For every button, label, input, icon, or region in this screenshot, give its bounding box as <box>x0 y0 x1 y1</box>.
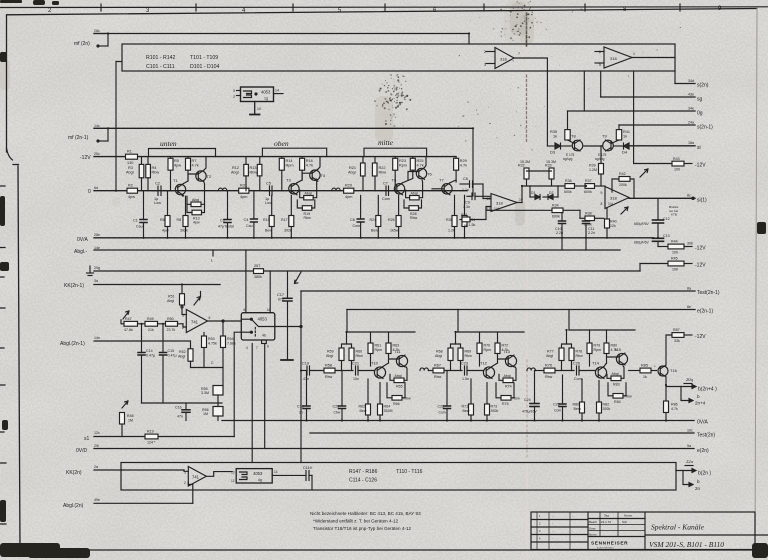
svg-text:Cbw: Cbw <box>334 411 341 415</box>
resistor R42 feedback <box>612 172 634 198</box>
svg-text:R36: R36 <box>565 179 572 183</box>
svg-text:6: 6 <box>244 308 246 312</box>
svg-text:R41: R41 <box>623 130 630 134</box>
svg-text:T7: T7 <box>439 178 444 183</box>
node 0V/D <box>76 444 99 454</box>
wire T6 collector up <box>425 157 427 168</box>
svg-text:15.3M: 15.3M <box>546 160 556 164</box>
svg-text:Bew: Bew <box>463 409 470 413</box>
svg-text:R16: R16 <box>306 159 313 163</box>
svg-text:34d: 34d <box>688 79 694 83</box>
svg-text:R51: R51 <box>168 295 175 299</box>
svg-text:R39: R39 <box>589 164 596 168</box>
resistor R31b <box>460 208 486 228</box>
svg-text:R23: R23 <box>399 159 406 163</box>
capacitor C11 <box>583 221 596 251</box>
svg-text:Rpm: Rpm <box>375 348 383 352</box>
svg-text:Abgl: Abgl <box>546 354 553 358</box>
node s1 <box>84 431 100 442</box>
resistor R2 <box>127 184 138 200</box>
wire diode row stubs <box>530 186 558 197</box>
svg-text:0: 0 <box>88 189 91 195</box>
svg-text:b: b <box>697 394 700 399</box>
svg-text:29i: 29i <box>94 444 99 448</box>
capacitor C9 <box>463 193 491 209</box>
wire drop x601 <box>600 71 602 97</box>
svg-text:3: 3 <box>182 314 184 318</box>
resistor R43 and -12V net <box>634 157 707 172</box>
resistor R26 <box>388 195 401 238</box>
svg-text:R32: R32 <box>518 164 525 168</box>
resistor R55 <box>201 386 223 407</box>
svg-text:T2: T2 <box>207 174 212 179</box>
svg-text:R15: R15 <box>263 218 270 222</box>
svg-text:4.7k: 4.7k <box>192 164 199 168</box>
svg-text:R42: R42 <box>619 172 626 176</box>
svg-text:R78: R78 <box>576 350 583 354</box>
svg-text:mf (2n-1): mf (2n-1) <box>68 135 89 141</box>
net b(2n+4) <box>666 377 717 406</box>
svg-text:R33: R33 <box>545 164 552 168</box>
switch arrow A2 <box>621 207 628 214</box>
transistor T15 <box>614 347 628 365</box>
svg-text:Abgl: Abgl <box>192 198 199 202</box>
svg-text:Bearb: Bearb <box>589 520 597 524</box>
svg-text:Test(2n): Test(2n) <box>697 433 715 439</box>
svg-text:T9: T9 <box>602 134 607 139</box>
svg-text:D3: D3 <box>550 150 556 155</box>
svg-text:Abgl: Abgl <box>305 191 312 195</box>
svg-text:4.7k: 4.7k <box>611 348 618 352</box>
svg-text:T16: T16 <box>670 368 678 373</box>
net sg <box>601 93 703 103</box>
svg-text:Com: Com <box>554 409 561 413</box>
svg-text:392k: 392k <box>180 229 188 233</box>
svg-text:Abgl.-: Abgl.- <box>74 249 87 255</box>
wire 0V/D e(2n) line <box>94 448 694 450</box>
svg-text:Rbw: Rbw <box>410 216 418 220</box>
svg-text:34e: 34e <box>688 107 694 111</box>
node 0V/A rail label <box>77 233 100 243</box>
svg-text:T101 - T109: T101 - T109 <box>190 55 218 61</box>
svg-text:0V/D: 0V/D <box>76 448 88 454</box>
node KK(2n-1) <box>64 279 98 289</box>
svg-text:R60: R60 <box>356 350 363 354</box>
capacitor C1 <box>133 191 147 238</box>
transistor T4 <box>310 169 326 181</box>
svg-text:7: 7 <box>518 52 520 56</box>
wire KK(2n-1) bus <box>94 284 220 286</box>
svg-text:Bew: Bew <box>360 409 367 413</box>
wire Abgl rail <box>94 249 620 251</box>
svg-text:-: - <box>552 523 553 526</box>
svg-text:1/4: 1/4 <box>608 202 613 206</box>
net e(2n) label <box>687 444 709 454</box>
resistor R53 <box>202 333 217 368</box>
svg-text:KTB: KTB <box>671 213 677 217</box>
node Abgl.(2n-1) <box>60 336 100 347</box>
transistor T3 <box>286 178 299 195</box>
svg-text:318: 318 <box>610 56 617 61</box>
ground symbol left <box>87 266 101 276</box>
svg-text:318: 318 <box>496 201 503 206</box>
scan speckle cluster <box>374 8 681 150</box>
resistor R17 <box>281 195 294 238</box>
svg-text:R79: R79 <box>594 344 601 348</box>
node 0 rail label <box>88 186 98 195</box>
svg-text:R37: R37 <box>585 179 592 183</box>
op-amp U102 <box>595 47 675 68</box>
svg-text:oben: oben <box>274 139 289 148</box>
svg-text:392k: 392k <box>491 409 499 413</box>
svg-text:1: 1 <box>633 52 635 56</box>
svg-text:R69: R69 <box>465 350 472 354</box>
svg-text:R67: R67 <box>434 364 441 368</box>
top ruler line <box>0 6 768 9</box>
svg-text:392k: 392k <box>603 407 611 411</box>
wire C8 to U3 <box>483 184 491 199</box>
resistor R9 Abgl <box>187 182 205 207</box>
svg-text:2: 2 <box>184 481 186 485</box>
resistor R58 <box>324 364 353 379</box>
wire mf(2n) drop <box>468 34 470 45</box>
resistor R67 <box>428 364 462 379</box>
resistor R28 <box>404 200 422 220</box>
svg-text:0V/A: 0V/A <box>697 420 709 426</box>
resistor R32 <box>518 160 530 186</box>
diode D2 <box>543 191 558 200</box>
inductor L3 <box>420 368 428 371</box>
inductor L4 <box>527 368 535 371</box>
net e(2n-1) <box>347 305 713 315</box>
svg-text:100: 100 <box>672 268 678 272</box>
svg-text:Spektral - Kanäle: Spektral - Kanäle <box>651 523 705 532</box>
transistor T13 <box>503 349 517 367</box>
svg-text:R43: R43 <box>673 157 680 161</box>
svg-text:600k: 600k <box>552 215 560 219</box>
svg-text:R72: R72 <box>502 344 509 348</box>
wire T12 collector link <box>492 356 508 367</box>
svg-text:4pw: 4pw <box>128 195 135 199</box>
svg-text:R65: R65 <box>396 385 403 389</box>
resistor R37 <box>584 179 605 194</box>
resistor R59 R60 trimmer pair <box>326 332 363 371</box>
svg-text:C5: C5 <box>266 182 271 186</box>
wire unten bracket <box>149 149 216 157</box>
svg-text:Abgl: Abgl <box>167 299 174 303</box>
svg-text:Com: Com <box>353 224 361 228</box>
svg-text:Rbw: Rbw <box>576 354 584 358</box>
svg-text:30b: 30b <box>687 242 693 246</box>
svg-text:C26: C26 <box>573 362 580 366</box>
capacitor C8 <box>460 177 483 192</box>
resistor R77 R78 trimmer pair <box>546 330 583 371</box>
resistor R71 <box>462 379 474 421</box>
capacitor C21 <box>352 362 374 382</box>
svg-text:mitte: mitte <box>378 138 394 147</box>
svg-text:392k: 392k <box>284 229 292 233</box>
net si <box>629 141 701 151</box>
svg-text:2n: 2n <box>695 486 701 491</box>
svg-text:1k: 1k <box>553 135 557 139</box>
svg-text:Bem: Bem <box>574 407 581 411</box>
capacitor C12 <box>634 198 670 238</box>
resistor R8 <box>177 196 189 238</box>
svg-text:4pm: 4pm <box>345 195 352 199</box>
svg-text:-12V: -12V <box>695 263 706 269</box>
resistor R73 <box>485 383 499 421</box>
svg-text:33k: 33k <box>674 339 680 343</box>
svg-text:14: 14 <box>274 470 278 474</box>
svg-text:R80: R80 <box>573 403 580 407</box>
mux U6 4053 <box>241 250 302 350</box>
svg-text:C25: C25 <box>553 403 560 407</box>
svg-text:43e: 43e <box>688 93 694 97</box>
net b(2n) <box>676 459 711 491</box>
svg-text:Rbw: Rbw <box>545 375 553 379</box>
svg-text:22a: 22a <box>686 459 694 464</box>
svg-text:352M: 352M <box>384 409 393 413</box>
op-amp U7 741 <box>122 467 232 491</box>
resistor R51 trimmer <box>167 285 201 315</box>
resistor R18 Abgl <box>300 179 317 200</box>
svg-text:mf (2n): mf (2n) <box>74 41 90 47</box>
svg-text:9: 9 <box>601 191 603 195</box>
transistor T5 <box>392 178 405 195</box>
svg-text:6: 6 <box>209 316 211 320</box>
border frame <box>7 9 758 153</box>
capacitor C23 <box>461 362 483 382</box>
net s(2n) <box>675 79 709 89</box>
resistor R80 <box>604 330 617 354</box>
svg-text:R34: R34 <box>552 204 559 208</box>
svg-text:C22: C22 <box>438 405 445 409</box>
svg-text:R77: R77 <box>547 350 554 354</box>
svg-text:ELECTRONIC: ELECTRONIC <box>597 548 614 550</box>
svg-text:Abgl: Abgl <box>231 171 239 175</box>
resistor R79 <box>587 330 601 366</box>
svg-text:Rpm: Rpm <box>286 164 294 168</box>
svg-text:R45: R45 <box>671 257 678 261</box>
svg-text:28c: 28c <box>94 29 100 33</box>
svg-text:C6: C6 <box>350 218 355 222</box>
svg-text:Rbw: Rbw <box>152 171 160 175</box>
svg-text:600k: 600k <box>584 190 592 194</box>
wire mitte bracket <box>364 148 427 156</box>
svg-text:R14: R14 <box>286 159 293 163</box>
svg-text:VSM 201-S, B101 - B110: VSM 201-S, B101 - B110 <box>649 540 724 549</box>
svg-text:T14: T14 <box>592 361 600 366</box>
svg-text:Name: Name <box>624 514 632 518</box>
svg-text:R31: R31 <box>461 213 468 217</box>
resistor R46 <box>120 401 134 437</box>
ground (reference block) <box>250 102 261 115</box>
resistor R7 <box>186 157 199 171</box>
wire 0V/D riser <box>264 344 266 449</box>
wire U5 output <box>208 320 242 322</box>
svg-text:R80: R80 <box>611 344 618 348</box>
svg-text:T1: T1 <box>173 178 178 183</box>
svg-text:C1: C1 <box>133 219 138 223</box>
svg-text:23.1.76: 23.1.76 <box>601 520 611 524</box>
net Test(2n) <box>310 429 715 439</box>
ruler ticks <box>101 4 680 11</box>
svg-text:R20: R20 <box>345 184 352 188</box>
svg-text:5: 5 <box>599 63 601 67</box>
resistor R27 Abgl <box>406 180 423 200</box>
svg-text:R147 - R186: R147 - R186 <box>349 469 378 475</box>
svg-text:680μF/6V: 680μF/6V <box>634 222 650 226</box>
svg-text:R84: R84 <box>614 400 621 404</box>
svg-text:R35: R35 <box>550 130 557 134</box>
svg-text:R61: R61 <box>375 344 382 348</box>
svg-text:R46: R46 <box>127 414 134 418</box>
svg-text:4.7k: 4.7k <box>417 164 424 168</box>
svg-text:T3: T3 <box>286 178 291 183</box>
resistor R74 Abgl <box>499 367 516 389</box>
svg-text:-: - <box>572 530 573 533</box>
svg-text:Abgl: Abgl <box>326 354 333 358</box>
svg-text:sg/spg: sg/spg <box>595 157 605 161</box>
svg-text:-: - <box>552 538 553 541</box>
svg-text:C17: C17 <box>277 293 284 297</box>
resistor R23 <box>393 157 407 191</box>
wire 0V/A rail <box>94 237 654 239</box>
inductor L2 <box>332 188 340 191</box>
resistor R61 <box>368 332 382 366</box>
wire block bottom <box>142 402 223 404</box>
svg-text:SENNHEISER: SENNHEISER <box>591 541 628 547</box>
svg-text:1n: 1n <box>299 411 303 415</box>
svg-text:Com: Com <box>574 377 582 381</box>
svg-text:R5: R5 <box>174 159 179 163</box>
svg-text:8: 8 <box>601 202 603 206</box>
net si(1) <box>629 194 707 204</box>
svg-text:4.75k: 4.75k <box>208 342 217 346</box>
svg-text:4g: 4g <box>258 478 262 482</box>
svg-text:200k: 200k <box>619 183 627 187</box>
svg-text:4053: 4053 <box>258 317 268 322</box>
resistor R25 <box>410 157 423 171</box>
svg-text:Rbw: Rbw <box>304 216 312 220</box>
svg-text:C7: C7 <box>383 182 388 186</box>
wire signal rail <box>94 190 467 192</box>
resistor R45 and -12V net <box>640 257 706 272</box>
svg-text:R52: R52 <box>179 350 186 354</box>
svg-text:0V/A: 0V/A <box>77 237 89 243</box>
wire U6 pin7 riser <box>251 344 253 463</box>
svg-text:4.7k: 4.7k <box>460 164 467 168</box>
wire mf(2n) bus <box>108 33 469 35</box>
resistor R82 <box>597 381 611 421</box>
wire drop x634 <box>633 71 635 164</box>
resistor R14 <box>279 157 293 191</box>
node mf(2n) <box>74 29 108 47</box>
svg-text:- -: - - <box>552 515 555 518</box>
svg-text:R40: R40 <box>610 220 617 224</box>
capacitor C25 <box>553 375 566 421</box>
transistor T2 <box>196 170 212 182</box>
resistor R31 <box>239 184 249 200</box>
svg-text:-12V: -12V <box>695 163 706 169</box>
svg-text:470μ/16V: 470μ/16V <box>522 410 537 414</box>
svg-text:R4: R4 <box>152 166 157 170</box>
resistor R83 Abgl <box>607 366 624 387</box>
svg-text:24a: 24a <box>688 121 694 125</box>
capacitor C3 <box>218 191 234 238</box>
svg-text:2n+4: 2n+4 <box>695 401 706 406</box>
svg-text:C9: C9 <box>465 201 470 205</box>
svg-text:R50: R50 <box>167 317 174 321</box>
resistor R20 <box>344 184 354 200</box>
svg-text:T12: T12 <box>480 361 488 366</box>
ground C17 <box>281 359 293 361</box>
wire mf(2n-1) drop to op-amp U3 <box>472 128 474 196</box>
svg-text:Abgl: Abgl <box>126 171 134 175</box>
resistor R62 <box>359 379 371 421</box>
resistor R39 <box>589 146 604 186</box>
scan noise patches <box>0 0 534 207</box>
wire T5 collector to R25 <box>403 170 413 183</box>
capacitor C4 <box>244 191 258 238</box>
svg-text:12: 12 <box>231 479 235 483</box>
resistor R19b <box>145 430 158 445</box>
svg-text:9a: 9a <box>687 444 691 448</box>
svg-text:R59: R59 <box>327 350 334 354</box>
svg-text:1k5w: 1k5w <box>390 229 399 233</box>
svg-text:R68: R68 <box>436 350 443 354</box>
svg-text:R75: R75 <box>502 402 509 406</box>
op-amp U3 <box>487 194 523 212</box>
wire U101 out drop <box>546 71 548 146</box>
svg-text:C24: C24 <box>524 398 531 402</box>
net s(2n-1) <box>619 121 713 131</box>
resistor R87 and -12V net <box>666 328 706 365</box>
svg-text:T110 - T116: T110 - T116 <box>396 469 423 475</box>
svg-text:Norm: Norm <box>589 533 597 537</box>
label components list top <box>146 55 220 70</box>
transistor T16 <box>658 365 678 377</box>
wire cell1 bracket <box>347 331 415 333</box>
resistor R50 <box>158 317 187 332</box>
svg-text:8c: 8c <box>687 194 691 198</box>
svg-text:1g: 1g <box>264 97 268 101</box>
svg-text:680μF/6V: 680μF/6V <box>634 241 650 245</box>
wire T3 collector to R16 <box>297 170 302 183</box>
svg-text:s1: s1 <box>84 436 90 442</box>
svg-text:T5: T5 <box>392 178 397 183</box>
svg-text:R26: R26 <box>388 218 395 222</box>
svg-text:s(2n): s(2n) <box>697 83 709 89</box>
resistor R81 <box>573 379 585 421</box>
svg-text:Test(2n-1): Test(2n-1) <box>697 290 720 296</box>
svg-text:Bew: Bew <box>371 229 378 233</box>
svg-text:18a: 18a <box>688 141 694 145</box>
wire KK(2n) <box>94 469 122 471</box>
capacitor C5 <box>264 182 287 206</box>
svg-text:R13: R13 <box>250 166 257 170</box>
svg-text:67μ: 67μ <box>278 298 284 302</box>
svg-text:T8: T8 <box>571 134 576 139</box>
svg-text:R8: R8 <box>177 218 182 222</box>
resistor R68 R69 trimmer pair <box>435 332 472 371</box>
svg-text:3.3M: 3.3M <box>201 391 209 395</box>
svg-text:1.5k: 1.5k <box>461 224 468 228</box>
svg-text:14: 14 <box>267 308 271 312</box>
svg-text:1k: 1k <box>643 375 647 379</box>
svg-text:C16: C16 <box>175 406 182 410</box>
resistor R75 <box>496 383 520 406</box>
